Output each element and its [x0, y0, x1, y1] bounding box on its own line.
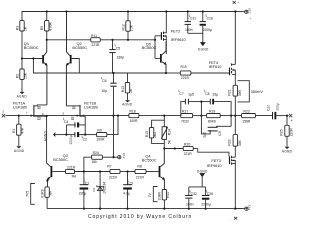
resistor R11 — [91, 34, 100, 47]
capacitor C1 — [79, 172, 90, 209]
svg-text:C2: C2 — [83, 138, 87, 142]
svg-text:221R: 221R — [136, 175, 145, 179]
svg-text:BC550C: BC550C — [142, 157, 157, 162]
svg-text:R19: R19 — [209, 110, 215, 114]
capacitor C8 — [201, 92, 231, 126]
resistor R23 — [242, 110, 256, 124]
svg-text:C5: C5 — [116, 46, 120, 50]
svg-text:R24: R24 — [93, 151, 99, 155]
svg-text:R11: R11 — [91, 34, 97, 38]
svg-text:4.99K: 4.99K — [48, 21, 52, 31]
wire bias drop from Q1 base to bus — [33, 59, 166, 74]
svg-text:C1: C1 — [85, 181, 89, 185]
wire riaa center drop — [201, 102, 210, 134]
svg-text:S: S — [72, 116, 74, 120]
svg-text:R1: R1 — [12, 129, 16, 133]
ground AGND below R2 — [17, 92, 28, 98]
annotation 350mV bracket — [238, 81, 264, 102]
wire source cap left rail — [65, 125, 67, 135]
node label leader ticks — [63, 14, 207, 192]
svg-text:2K2: 2K2 — [153, 132, 157, 138]
svg-text:15k: 15k — [91, 160, 97, 164]
svg-text:AGND: AGND — [282, 149, 293, 153]
resistor R9 — [96, 129, 106, 142]
svg-text:33µ: 33µ — [212, 93, 218, 97]
resistor R13 — [121, 73, 133, 100]
svg-text:R14: R14 — [167, 129, 171, 135]
wire R3 to base node — [21, 31, 23, 59]
resistor R2 — [15, 69, 27, 79]
resistor R3 — [15, 21, 27, 31]
svg-text:R8: R8 — [137, 165, 141, 169]
resistor R1 — [12, 116, 24, 147]
wire R20 to gate corner — [193, 148, 198, 150]
transistor Q3 — [47, 153, 68, 187]
svg-text:10K: 10K — [130, 24, 134, 31]
svg-text:39R: 39R — [238, 90, 242, 97]
node junction dots — [18, 10, 288, 209]
svg-text:7K32: 7K32 — [181, 119, 189, 123]
wire bias chain 2 — [120, 171, 135, 173]
svg-text:220µ: 220µ — [79, 191, 87, 195]
svg-text:S: S — [38, 116, 40, 120]
svg-text:221R: 221R — [91, 43, 100, 47]
svg-text:BC550C: BC550C — [53, 157, 68, 162]
connector X3-2 — [118, 153, 126, 159]
svg-text:AGND: AGND — [17, 94, 28, 98]
capacitor C31 — [185, 12, 197, 34]
svg-text:R12: R12 — [121, 24, 125, 30]
svg-text:2µ2: 2µ2 — [202, 132, 206, 138]
svg-text:180p: 180p — [117, 55, 125, 59]
wire Q5 base stub — [155, 57, 160, 59]
svg-text:R19: R19 — [181, 65, 187, 69]
svg-text:C10: C10 — [266, 105, 270, 111]
svg-text:R20: R20 — [184, 143, 190, 147]
svg-text:LSK389: LSK389 — [13, 104, 27, 109]
svg-text:AGND: AGND — [44, 130, 48, 141]
resistor R16 — [180, 65, 191, 80]
svg-text:C9: C9 — [218, 131, 222, 135]
ground AGND source bus — [44, 130, 67, 141]
svg-text:5K: 5K — [167, 139, 171, 144]
svg-text:350mV: 350mV — [251, 89, 264, 94]
resistor R10 — [158, 190, 170, 209]
svg-text:R15: R15 — [145, 131, 149, 137]
trimmer R14 — [161, 120, 171, 148]
wire R5 bottom to collector node — [46, 31, 48, 40]
svg-text:100n: 100n — [185, 28, 193, 32]
svg-text:R13: R13 — [121, 86, 125, 92]
svg-text:BC560C: BC560C — [142, 45, 157, 50]
svg-text:1000µ: 1000µ — [69, 135, 73, 145]
svg-text:D1: D1 — [92, 187, 96, 191]
wire R21 to feedback line — [234, 96, 236, 135]
svg-text:7V: 7V — [148, 193, 152, 198]
transistor FET2 — [161, 12, 187, 55]
wire FET1A source drop to Q3 collector — [47, 116, 51, 166]
resistor R17 — [181, 110, 193, 124]
svg-text:C16: C16 — [207, 17, 213, 21]
wire source cap right rail — [84, 125, 86, 135]
svg-text:R25: R25 — [279, 129, 283, 135]
svg-text:R18: R18 — [129, 110, 135, 114]
transistor Q1 — [24, 40, 48, 105]
svg-text:AGND: AGND — [122, 103, 133, 107]
resistor R22 — [228, 135, 242, 147]
svg-text:D: D — [38, 106, 40, 110]
capacitor C26 — [201, 187, 213, 209]
svg-text:158R: 158R — [242, 119, 251, 123]
wire collector node to R11 — [47, 39, 91, 41]
connector X2-2 — [233, 1, 252, 21]
ground AGND below R1 — [14, 146, 25, 153]
wire raw rail X2-2 drop to FET4 drain — [234, 12, 236, 65]
wire R11 to Q5 base drop — [100, 39, 155, 41]
wire R5 top — [46, 12, 48, 21]
svg-text:10p: 10p — [101, 89, 107, 93]
capacitor C7 — [179, 92, 201, 104]
svg-text:AGND: AGND — [14, 149, 25, 153]
wire riaa upper left rail — [181, 102, 186, 116]
svg-text:100R: 100R — [129, 119, 138, 123]
resistor R25 — [279, 116, 293, 147]
diode D1 — [92, 172, 106, 209]
wire riaa mid — [193, 115, 207, 117]
svg-text:R4: R4 — [72, 174, 76, 178]
svg-text:DGND: DGND — [198, 47, 209, 51]
svg-text:C31: C31 — [190, 17, 196, 21]
resistor R18 — [129, 110, 139, 123]
wire bias chain 1 — [75, 171, 111, 173]
svg-text:33K: 33K — [238, 140, 242, 147]
resistor R7 — [107, 165, 120, 180]
svg-text:2200µ: 2200µ — [203, 28, 213, 32]
resistor R24 — [91, 151, 102, 164]
svg-text:100µ: 100µ — [276, 103, 280, 111]
wire R16 to FET4 gate — [191, 72, 229, 74]
ground DGND top — [198, 42, 209, 51]
svg-text:IRF9610: IRF9610 — [171, 37, 187, 42]
wire base node to R2 — [21, 59, 23, 70]
transistor FET3 — [207, 156, 236, 209]
svg-text:X3-2: X3-2 — [122, 153, 126, 159]
resistor R20 — [183, 143, 193, 156]
capacitor C4 — [64, 120, 85, 128]
node input gate bus — [6, 115, 129, 117]
svg-text:D: D — [73, 106, 75, 110]
connector X2-4 output — [289, 114, 293, 123]
svg-text:2200µ: 2200µ — [201, 202, 211, 206]
wire decoupling join to DGND — [188, 33, 203, 42]
wire bus to R16 — [166, 72, 180, 74]
svg-text:208R: 208R — [158, 192, 162, 201]
wire gate bus drop to X3 line — [113, 116, 115, 158]
svg-text:Copyright 2010 by Wayne Colbur: Copyright 2010 by Wayne Colburn — [88, 214, 192, 220]
svg-text:R22: R22 — [228, 139, 232, 145]
annotation 7V bracket — [148, 187, 158, 202]
wire FET2 gate stub — [155, 35, 161, 37]
svg-text:C8: C8 — [205, 92, 209, 96]
wire V+ top rail — [22, 12, 235, 21]
wire feedback line segment 1 — [139, 115, 181, 117]
svg-text:BC550C: BC550C — [24, 45, 39, 50]
wire Q5 base/gate drop — [154, 36, 156, 59]
resistor R21 — [228, 85, 242, 96]
wire Q1 base bus — [22, 58, 42, 60]
wire feedback to rail cross — [220, 115, 241, 117]
svg-text:4.7µ: 4.7µ — [123, 191, 130, 195]
svg-text:R21: R21 — [228, 89, 232, 95]
svg-text:R9: R9 — [97, 129, 101, 133]
capacitor C6 — [101, 73, 116, 116]
svg-text:61R9: 61R9 — [40, 189, 44, 197]
svg-text:R23: R23 — [243, 110, 249, 114]
wire trimmer branch drop — [152, 116, 165, 128]
svg-text:1µ5: 1µ5 — [188, 93, 194, 97]
svg-text:R3: R3 — [15, 26, 19, 30]
capacitor C3 — [123, 172, 133, 209]
resistor R12 — [121, 12, 133, 40]
ground AGND below R13 — [122, 100, 133, 106]
svg-text:221R: 221R — [184, 152, 193, 156]
wire bottom ground bus — [47, 208, 242, 210]
capacitor C9 — [202, 126, 231, 137]
wire R2 to AGND — [21, 79, 23, 92]
transistor Q4 — [142, 149, 165, 190]
svg-text:2K: 2K — [129, 88, 133, 93]
wire C10 to output — [276, 115, 288, 117]
svg-text:IRF610: IRF610 — [209, 64, 223, 69]
annotation 7V5 bracket — [25, 184, 35, 205]
svg-text:LSK389: LSK389 — [84, 104, 98, 109]
svg-text:IRF9610: IRF9610 — [207, 163, 223, 168]
transistor FET4 — [209, 60, 236, 85]
wire R23 to C10 — [255, 115, 272, 117]
wire R24 left drop to bias chain — [84, 157, 92, 171]
ground AGND below R25 — [282, 147, 293, 154]
svg-text:R6: R6 — [49, 191, 53, 195]
capacitor C5 — [109, 40, 124, 73]
connector X2-1 — [231, 205, 252, 221]
svg-text:C26: C26 — [207, 192, 213, 196]
svg-text:C4: C4 — [64, 120, 68, 124]
connector X1-3 — [2, 109, 5, 117]
svg-text:220R: 220R — [290, 128, 294, 137]
capacitor C2 — [66, 132, 87, 145]
svg-text:R5: R5 — [40, 26, 44, 30]
svg-text:221R: 221R — [181, 76, 190, 80]
wire R9 up to gate bus — [107, 116, 118, 135]
wire bias chain to Q4 base — [146, 171, 159, 173]
svg-text:80K6: 80K6 — [208, 119, 216, 123]
svg-text:221R: 221R — [67, 165, 76, 169]
svg-text:R10: R10 — [166, 192, 170, 198]
capacitor C10 — [266, 103, 279, 119]
svg-text:BC550C: BC550C — [72, 45, 87, 50]
resistor R5 — [40, 21, 52, 31]
svg-text:7V5: 7V5 — [25, 191, 29, 197]
ground DGND bottom — [189, 170, 208, 187]
svg-text:15K: 15K — [24, 72, 28, 79]
wire R22 to FET3 source — [234, 146, 236, 157]
wire FET3 gate from R20 — [198, 149, 229, 157]
capacitor C16 — [200, 12, 213, 34]
svg-text:R7: R7 — [107, 165, 111, 169]
capacitor C32 — [185, 187, 197, 209]
resistor R15 — [145, 128, 164, 144]
svg-text:100n: 100n — [186, 202, 194, 206]
svg-text:1K: 1K — [24, 26, 28, 31]
wire trimmer bottom node — [164, 148, 183, 150]
transistor Q2 — [66, 12, 87, 106]
resistor R6 — [40, 187, 52, 209]
svg-text:C6: C6 — [102, 79, 106, 83]
svg-text:C3: C3 — [129, 181, 133, 185]
svg-text:R2: R2 — [15, 74, 19, 78]
svg-text:C7: C7 — [179, 92, 183, 96]
svg-text:R17: R17 — [182, 110, 188, 114]
transistor Q5 — [142, 41, 167, 73]
svg-text:X2-1: X2-1 — [248, 205, 252, 211]
transistor FET1A — [13, 101, 47, 121]
svg-text:C32: C32 — [191, 192, 197, 196]
svg-text:FET2: FET2 — [171, 28, 181, 33]
resistor R19b — [207, 110, 221, 124]
wire R24 to X3-2 — [102, 156, 117, 158]
svg-text:100R: 100R — [96, 138, 105, 142]
wire caps to R9 — [85, 134, 96, 136]
transistor FET1B — [63, 101, 98, 125]
resistor R4 — [66, 165, 77, 178]
resistor R8 — [135, 165, 146, 180]
svg-text:DGND: DGND — [197, 170, 208, 174]
svg-text:X2-2: X2-2 — [248, 8, 252, 14]
svg-text:47K: 47K — [20, 127, 24, 134]
svg-text:1N5234: 1N5234 — [103, 182, 107, 194]
svg-text:221R: 221R — [109, 175, 118, 179]
